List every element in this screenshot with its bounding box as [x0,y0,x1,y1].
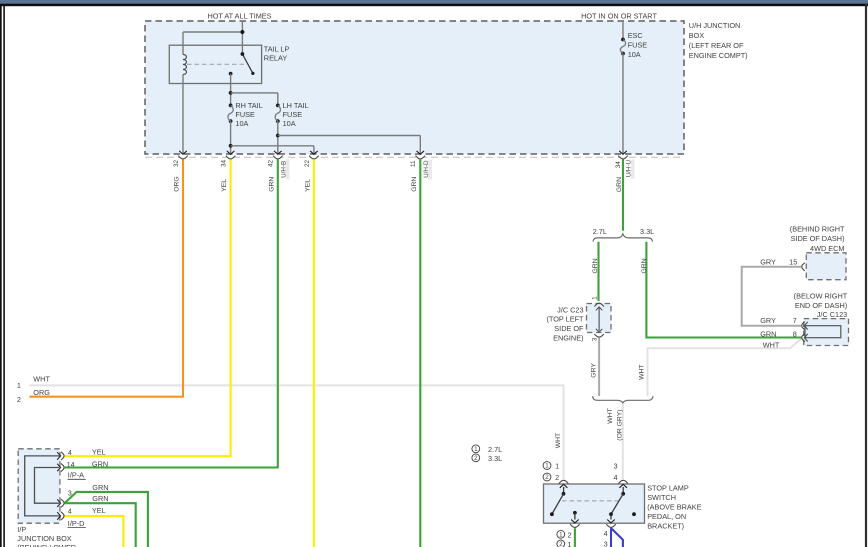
svg-text:3: 3 [68,489,72,498]
svg-text:22: 22 [304,159,311,167]
svg-text:SIDE OF: SIDE OF [554,324,584,333]
svg-text:10A: 10A [628,50,641,59]
svg-text:HOT AT ALL TIMES: HOT AT ALL TIMES [207,11,271,20]
svg-text:10A: 10A [235,119,248,128]
svg-text:2.7L: 2.7L [593,227,607,236]
svg-text:YEL: YEL [221,179,228,192]
svg-text:U/H JUNCTION: U/H JUNCTION [689,21,740,30]
svg-text:YEL: YEL [92,506,106,515]
svg-text:END OF DASH): END OF DASH) [795,301,847,310]
svg-text:4WD ECM: 4WD ECM [810,244,844,253]
svg-text:1: 1 [555,462,559,471]
svg-text:GRY: GRY [590,363,597,378]
svg-text:2: 2 [474,455,478,462]
svg-text:GRN: GRN [760,329,776,338]
svg-text:3: 3 [613,462,617,471]
svg-text:(TOP LEFT: (TOP LEFT [546,315,584,324]
svg-text:(LEFT REAR OF: (LEFT REAR OF [689,41,744,50]
svg-text:(BEHIND RIGHT: (BEHIND RIGHT [790,225,845,234]
svg-text:JUNCTION BOX: JUNCTION BOX [17,534,71,543]
svg-text:(BEHIND LOWER: (BEHIND LOWER [17,543,76,547]
svg-text:WHT: WHT [33,374,50,383]
svg-text:(OR GRY): (OR GRY) [616,409,623,440]
svg-text:WHT: WHT [607,408,614,423]
svg-text:3: 3 [604,540,608,547]
svg-text:4: 4 [68,448,72,457]
svg-text:GRN: GRN [592,258,599,273]
svg-text:2: 2 [555,473,559,482]
svg-text:2: 2 [567,531,571,540]
svg-text:J/C C23: J/C C23 [557,305,583,314]
svg-text:42: 42 [268,159,275,167]
svg-text:4: 4 [68,507,72,516]
svg-text:GRN: GRN [92,494,108,503]
svg-text:GRN: GRN [411,177,418,192]
svg-text:7: 7 [793,316,797,325]
svg-text:LH TAIL: LH TAIL [283,101,309,110]
svg-text:2: 2 [545,474,549,481]
svg-text:I/P-A: I/P-A [68,471,84,480]
svg-text:2.7L: 2.7L [488,445,502,454]
svg-text:1: 1 [559,532,563,539]
svg-text:I/P: I/P [17,525,26,534]
svg-text:ESC: ESC [628,31,643,40]
svg-text:4: 4 [613,473,617,482]
svg-text:3.3L: 3.3L [488,454,502,463]
svg-text:SIDE OF DASH): SIDE OF DASH) [791,234,845,243]
svg-text:1: 1 [545,463,549,470]
svg-text:(BELOW RIGHT: (BELOW RIGHT [794,292,848,301]
svg-text:11: 11 [410,160,417,167]
svg-text:1: 1 [474,446,478,453]
svg-text:15: 15 [789,257,797,266]
svg-text:GRN: GRN [92,459,108,468]
svg-text:1: 1 [592,296,599,300]
svg-text:YEL: YEL [92,448,106,457]
svg-text:34: 34 [615,161,622,169]
svg-text:ORG: ORG [174,176,181,191]
svg-text:RH TAIL: RH TAIL [235,101,262,110]
svg-text:1: 1 [567,540,571,547]
svg-text:34: 34 [221,159,228,167]
svg-text:PEDAL, ON: PEDAL, ON [647,512,686,521]
svg-text:STOP LAMP: STOP LAMP [647,483,689,492]
svg-text:FUSE: FUSE [628,41,648,50]
svg-text:2: 2 [17,395,21,404]
svg-text:WHT: WHT [639,364,646,379]
svg-text:U/H-D: U/H-D [423,160,430,178]
svg-text:SWITCH: SWITCH [647,493,676,502]
svg-text:3: 3 [592,337,599,341]
svg-text:1: 1 [17,381,21,390]
svg-text:4: 4 [604,529,608,538]
svg-text:YEL: YEL [304,179,311,192]
svg-text:I/P-D: I/P-D [68,519,85,528]
svg-text:GRY: GRY [760,316,776,325]
svg-text:WHT: WHT [555,433,562,448]
svg-text:3.3L: 3.3L [640,227,654,236]
svg-text:8: 8 [793,329,797,338]
svg-text:14: 14 [67,460,75,469]
svg-text:HOT IN ON OR START: HOT IN ON OR START [581,11,657,20]
svg-text:2: 2 [559,541,563,547]
svg-text:GRN: GRN [92,483,108,492]
svg-text:U/H-B: U/H-B [281,161,288,178]
svg-text:BOX: BOX [689,31,705,40]
svg-text:(ABOVE BRAKE: (ABOVE BRAKE [647,502,701,511]
svg-text:GRY: GRY [760,257,776,266]
svg-text:ORG: ORG [33,388,50,397]
svg-text:WHT: WHT [763,341,780,350]
svg-text:GRN: GRN [616,177,623,192]
svg-text:ENGINE): ENGINE) [553,334,583,343]
svg-text:U/H-U: U/H-U [626,159,633,177]
svg-text:RELAY: RELAY [264,54,288,63]
svg-text:TAIL LP: TAIL LP [264,44,290,53]
svg-text:J/C C123: J/C C123 [817,310,847,319]
svg-text:10A: 10A [283,119,296,128]
svg-text:32: 32 [173,159,180,167]
svg-text:ENGINE COMPT): ENGINE COMPT) [689,51,748,60]
svg-text:FUSE: FUSE [235,110,255,119]
svg-text:GRN: GRN [641,258,648,273]
svg-text:FUSE: FUSE [283,110,303,119]
svg-text:BRACKET): BRACKET) [647,521,684,530]
svg-text:GRN: GRN [268,177,275,192]
